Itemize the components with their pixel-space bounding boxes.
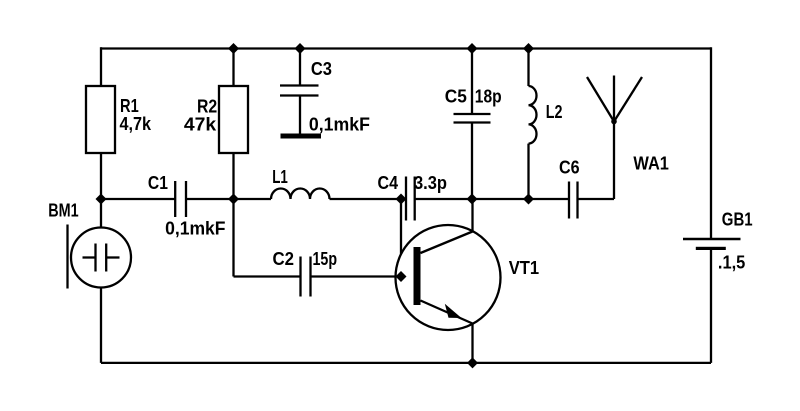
antenna WA1 xyxy=(587,76,642,200)
svg-text:.1,5: .1,5 xyxy=(718,252,745,273)
svg-text:C6: C6 xyxy=(559,157,580,178)
wire battery to bottom bus xyxy=(710,250,712,363)
wire left column top (to R1) xyxy=(100,47,102,86)
wire R1 bottom to node xyxy=(100,153,102,200)
wire C5 bottom to node xyxy=(471,123,473,200)
svg-text:VT1: VT1 xyxy=(509,257,539,278)
node top bus L2 xyxy=(523,43,534,54)
svg-text:L1: L1 xyxy=(272,166,288,187)
wire right edge top xyxy=(710,47,712,239)
wire BM1 bottom stub xyxy=(100,288,102,363)
capacitor C4 xyxy=(406,177,415,221)
inductor L1 xyxy=(271,189,330,200)
wire base node vertical xyxy=(400,199,402,277)
capacitor C6 xyxy=(569,182,578,219)
wire top bus xyxy=(101,47,711,49)
node top bus C5 xyxy=(467,43,478,54)
capacitor C3 xyxy=(280,86,319,96)
wire BM1 top stub xyxy=(100,199,102,228)
node C2 base xyxy=(396,271,407,282)
wire C3 stub from top bus xyxy=(299,47,301,85)
wire L1 to C4 node xyxy=(330,198,407,200)
wire R2 bottom to node xyxy=(232,153,234,200)
svg-text:C1: C1 xyxy=(148,172,168,193)
wire L2 node to C6 xyxy=(529,198,570,200)
wire C5 column top xyxy=(471,47,473,114)
node mid bus L2 xyxy=(523,194,534,205)
svg-text:C4: C4 xyxy=(378,172,399,193)
node mid bus collector xyxy=(467,194,478,205)
wire base node to transistor xyxy=(401,275,414,277)
battery GB1 xyxy=(683,239,741,250)
svg-text:47k: 47k xyxy=(184,114,217,135)
wire collector up xyxy=(471,199,473,232)
node mid bus BM1 xyxy=(96,194,107,205)
wire bottom bus xyxy=(101,362,711,364)
svg-text:BM1: BM1 xyxy=(48,199,78,220)
svg-text:0,1mkF: 0,1mkF xyxy=(165,217,225,238)
svg-text:4,7k: 4,7k xyxy=(120,113,152,134)
svg-text:C2: C2 xyxy=(273,248,295,269)
wire C2 branch horizontal left xyxy=(234,275,301,277)
ground xyxy=(281,134,322,139)
resistor R2 xyxy=(219,86,248,153)
node bottom bus emitter xyxy=(467,357,478,368)
resistor R1 xyxy=(86,86,115,153)
capacitor C5 xyxy=(454,114,491,123)
node mid bus L1-C4 xyxy=(396,194,407,205)
svg-text:18p: 18p xyxy=(475,86,502,107)
inductor L2 xyxy=(529,86,537,144)
wire L2 bottom to node xyxy=(527,144,529,199)
wire C2 branch vertical left xyxy=(232,199,234,277)
wire R2 node to L1 xyxy=(234,198,272,200)
wire C6 to antenna xyxy=(578,198,615,200)
wire mid bus BM1 node to C1 xyxy=(101,198,175,200)
node top bus R2 xyxy=(228,43,239,54)
transistor VT1 xyxy=(396,225,501,330)
wire C2 to base node xyxy=(311,275,402,277)
wire C4 to collector node xyxy=(415,198,472,200)
wire R2 column top xyxy=(232,47,234,86)
microphone BM1 xyxy=(68,225,132,289)
svg-text:3.3p: 3.3p xyxy=(414,172,447,193)
wire collector node to L2 node xyxy=(472,198,529,200)
wire C1 to R2 node xyxy=(186,198,234,200)
node top bus C3 xyxy=(295,43,306,54)
svg-text:15p: 15p xyxy=(313,248,338,269)
wire emitter down xyxy=(471,324,473,363)
wire L2 column top xyxy=(527,47,529,86)
svg-text:0,1mkF: 0,1mkF xyxy=(309,114,370,135)
capacitor C1 xyxy=(175,181,186,217)
svg-text:C3: C3 xyxy=(311,58,332,79)
svg-text:GB1: GB1 xyxy=(722,209,753,230)
svg-text:C5: C5 xyxy=(445,86,467,107)
svg-text:L2: L2 xyxy=(546,101,563,122)
capacitor C2 xyxy=(301,257,311,297)
svg-text:WA1: WA1 xyxy=(633,152,669,173)
wire C3 to ground xyxy=(299,96,301,135)
node mid bus R2 xyxy=(228,194,239,205)
